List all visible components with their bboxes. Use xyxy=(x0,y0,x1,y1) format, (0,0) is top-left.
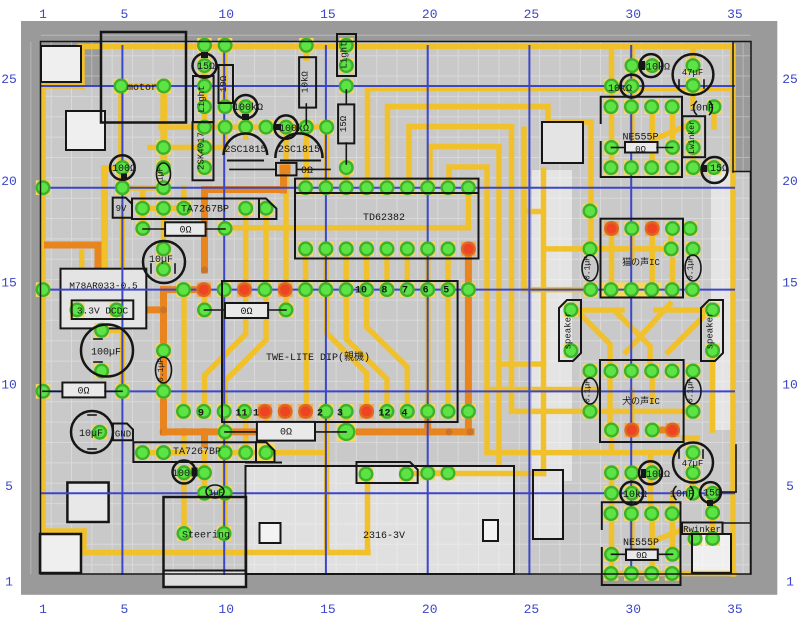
svg-text:25: 25 xyxy=(782,72,798,87)
svg-text:9: 9 xyxy=(198,409,204,420)
svg-text:0.1µF: 0.1µF xyxy=(687,379,696,403)
svg-text:10Ω: 10Ω xyxy=(219,75,229,92)
svg-text:5: 5 xyxy=(443,286,449,297)
svg-text:10: 10 xyxy=(218,7,234,22)
svg-text:0Ω: 0Ω xyxy=(635,145,646,155)
svg-text:100µF: 100µF xyxy=(91,348,121,359)
svg-text:30: 30 xyxy=(625,7,641,22)
svg-text:10kΩ: 10kΩ xyxy=(608,83,632,95)
svg-text:25: 25 xyxy=(524,602,540,617)
svg-text:11: 11 xyxy=(235,409,247,420)
svg-text:0.1µF: 0.1µF xyxy=(687,256,696,280)
svg-text:20: 20 xyxy=(422,7,438,22)
svg-text:2: 2 xyxy=(317,409,323,420)
svg-text:1: 1 xyxy=(39,7,47,22)
svg-text:TWE-LITE DIP(親機): TWE-LITE DIP(親機) xyxy=(266,350,370,364)
svg-text:M78AR033-0.5: M78AR033-0.5 xyxy=(69,281,138,292)
svg-text:0Ω: 0Ω xyxy=(179,226,191,237)
svg-text:8: 8 xyxy=(381,286,387,297)
svg-text:5: 5 xyxy=(120,7,128,22)
svg-text:12: 12 xyxy=(378,409,390,420)
svg-text:1: 1 xyxy=(253,409,259,420)
svg-text:3: 3 xyxy=(337,409,343,420)
svg-text:15: 15 xyxy=(782,276,798,291)
svg-text:10kΩ: 10kΩ xyxy=(646,469,670,481)
svg-text:47µF: 47µF xyxy=(682,68,704,78)
svg-text:5: 5 xyxy=(5,479,13,494)
svg-text:10: 10 xyxy=(218,602,234,617)
svg-text:35: 35 xyxy=(727,7,743,22)
svg-text:10nF: 10nF xyxy=(690,104,714,115)
svg-text:speaker: speaker xyxy=(564,312,574,350)
svg-text:4: 4 xyxy=(401,409,407,420)
svg-text:6: 6 xyxy=(423,286,429,297)
svg-text:7: 7 xyxy=(402,286,408,297)
svg-text:10nF: 10nF xyxy=(670,490,694,501)
svg-text:10kΩ: 10kΩ xyxy=(623,489,647,501)
svg-text:15Ω: 15Ω xyxy=(703,489,721,500)
svg-text:47µF: 47µF xyxy=(682,459,704,469)
svg-text:10µF: 10µF xyxy=(149,255,173,266)
svg-text:TA7267BP: TA7267BP xyxy=(181,205,229,216)
svg-text:15: 15 xyxy=(320,7,336,22)
svg-text:1: 1 xyxy=(39,602,47,617)
svg-text:10: 10 xyxy=(355,286,367,297)
svg-text:0Ω: 0Ω xyxy=(636,551,647,561)
svg-text:speaker: speaker xyxy=(706,312,716,350)
svg-text:猫の声IC: 猫の声IC xyxy=(622,256,660,268)
svg-text:0Ω: 0Ω xyxy=(240,307,252,318)
svg-text:Steering: Steering xyxy=(182,530,230,542)
svg-text:15: 15 xyxy=(320,602,336,617)
svg-text:30: 30 xyxy=(625,602,641,617)
svg-text:0Ω: 0Ω xyxy=(77,387,89,398)
svg-text:1µF: 1µF xyxy=(157,167,166,182)
svg-text:0.1µF: 0.1µF xyxy=(584,256,593,280)
svg-text:GND: GND xyxy=(115,430,131,440)
svg-text:1: 1 xyxy=(786,575,794,590)
svg-text:5: 5 xyxy=(120,602,128,617)
svg-text:100: 100 xyxy=(172,469,190,480)
svg-text:20: 20 xyxy=(1,174,17,189)
svg-text:犬の声IC: 犬の声IC xyxy=(622,395,660,407)
svg-text:10kΩ: 10kΩ xyxy=(301,71,311,93)
svg-text:20: 20 xyxy=(782,174,798,189)
svg-text:9V: 9V xyxy=(116,204,127,214)
svg-text:TD62382: TD62382 xyxy=(363,213,405,224)
svg-text:NE555P: NE555P xyxy=(623,538,659,549)
svg-text:TA7267BP: TA7267BP xyxy=(173,447,221,458)
svg-text:10µF: 10µF xyxy=(79,429,103,440)
svg-text:20: 20 xyxy=(422,602,438,617)
svg-text:5: 5 xyxy=(786,479,794,494)
svg-text:10: 10 xyxy=(782,377,798,392)
svg-text:2316-3V: 2316-3V xyxy=(363,531,405,542)
svg-text:25: 25 xyxy=(524,7,540,22)
svg-text:3.3V DCDC: 3.3V DCDC xyxy=(77,306,129,317)
svg-text:15Ω: 15Ω xyxy=(339,115,349,132)
svg-text:motor: motor xyxy=(127,83,157,94)
svg-text:15: 15 xyxy=(1,276,17,291)
svg-text:2SK4017: 2SK4017 xyxy=(197,132,207,170)
svg-text:0.1µF: 0.1µF xyxy=(157,358,166,382)
svg-text:0.1µF: 0.1µF xyxy=(584,379,593,403)
svg-text:0Ω: 0Ω xyxy=(280,428,292,439)
svg-text:15Ω: 15Ω xyxy=(197,62,215,73)
svg-text:1: 1 xyxy=(5,575,13,590)
svg-text:2SC1815: 2SC1815 xyxy=(278,145,320,156)
svg-text:10kΩ: 10kΩ xyxy=(646,62,670,74)
svg-text:15Ω: 15Ω xyxy=(710,164,728,175)
svg-text:35: 35 xyxy=(727,602,743,617)
svg-text:0Ω: 0Ω xyxy=(301,166,313,177)
svg-text:25: 25 xyxy=(1,72,17,87)
svg-text:10: 10 xyxy=(1,377,17,392)
svg-text:Light: Light xyxy=(197,85,207,112)
svg-text:100Ω: 100Ω xyxy=(112,164,136,175)
svg-text:2SC1815: 2SC1815 xyxy=(224,145,266,156)
svg-text:100kΩ: 100kΩ xyxy=(233,102,263,114)
svg-text:Light: Light xyxy=(340,41,350,68)
svg-text:Lwinker: Lwinker xyxy=(688,120,697,154)
